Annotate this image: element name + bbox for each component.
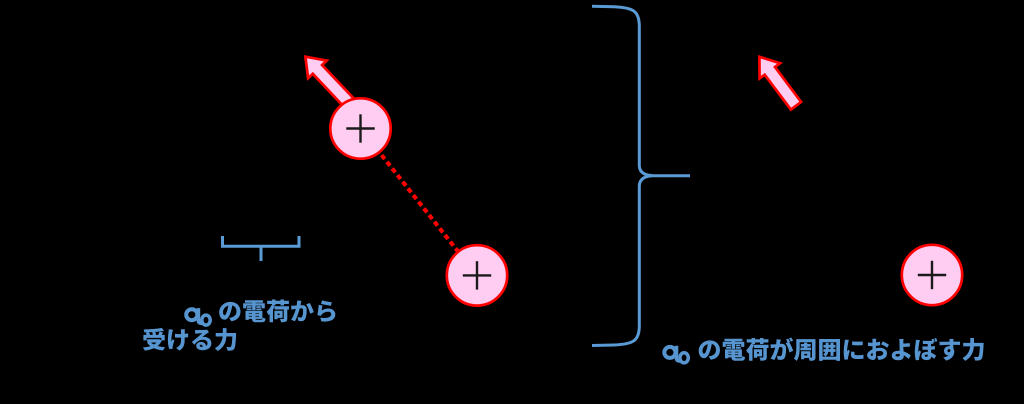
plus sign of right charge bbox=[918, 274, 946, 276]
plus sign of source charge bbox=[463, 274, 491, 276]
right diagram charge circle bbox=[902, 245, 962, 305]
left force arrow (on test charge) bbox=[305, 57, 356, 111]
left label line 1: の電荷から bbox=[219, 302, 240, 321]
big blue curly brace bbox=[592, 6, 690, 345]
source charge q0 circle (left diagram) bbox=[447, 245, 507, 305]
red dashed line between charges bbox=[361, 129, 478, 276]
left label: q0 (q with subscript zero) bbox=[186, 309, 197, 320]
left label line 2: 受ける力 bbox=[143, 328, 165, 351]
plus sign of test charge bbox=[346, 127, 374, 129]
right diagram arrow bbox=[759, 57, 801, 110]
test charge circle (upper left) bbox=[330, 98, 390, 158]
right label: q0 bbox=[664, 347, 675, 358]
small blue bracket (left) bbox=[223, 236, 300, 261]
right label: の電荷が周囲におよぼす力 bbox=[699, 340, 720, 359]
